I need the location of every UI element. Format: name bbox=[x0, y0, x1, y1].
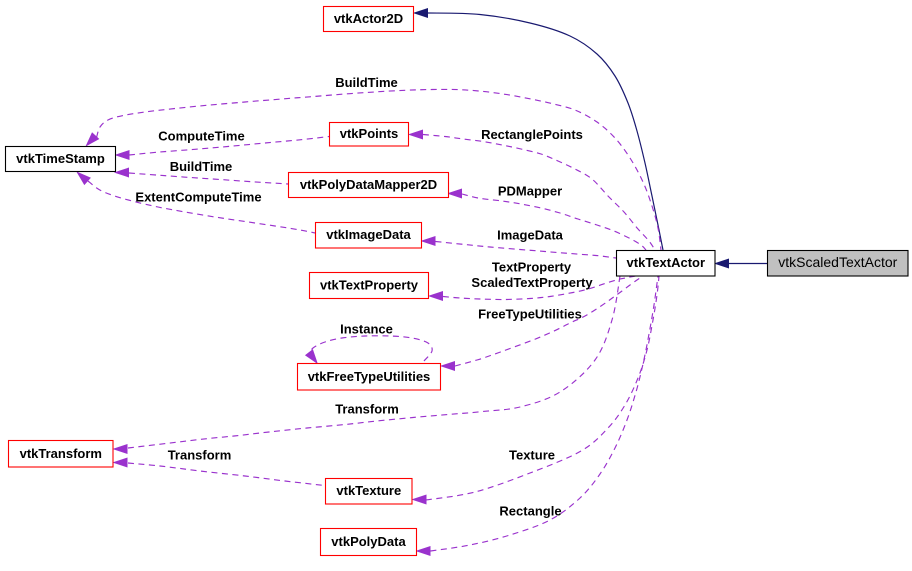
wire Transform from vtkTextActor bbox=[128, 276, 620, 448]
svg-text:Instance: Instance bbox=[340, 322, 393, 337]
svg-text:vtkScaledTextActor: vtkScaledTextActor bbox=[778, 254, 897, 270]
wire inheritance vtkTextActor to vtkActor2D bbox=[428, 13, 663, 250]
svg-text:ImageData: ImageData bbox=[497, 228, 564, 243]
svg-text:BuildTime: BuildTime bbox=[170, 159, 233, 174]
node vtkPolyData bbox=[321, 529, 417, 556]
wire RectanglePoints bbox=[423, 135, 655, 251]
svg-text:vtkTextProperty: vtkTextProperty bbox=[320, 278, 419, 293]
svg-text:vtkFreeTypeUtilities: vtkFreeTypeUtilities bbox=[308, 369, 431, 384]
wire Rectangle bbox=[431, 276, 659, 551]
wire Instance self-loop bbox=[308, 336, 432, 361]
svg-text:vtkActor2D: vtkActor2D bbox=[334, 11, 403, 26]
svg-text:vtkTransform: vtkTransform bbox=[20, 446, 102, 461]
svg-text:FreeTypeUtilities: FreeTypeUtilities bbox=[478, 307, 582, 322]
svg-text:ExtentComputeTime: ExtentComputeTime bbox=[135, 190, 261, 205]
svg-text:RectanglePoints: RectanglePoints bbox=[481, 127, 583, 142]
svg-text:vtkPolyData: vtkPolyData bbox=[331, 534, 406, 549]
svg-text:vtkImageData: vtkImageData bbox=[326, 227, 411, 242]
svg-text:Transform: Transform bbox=[168, 448, 232, 463]
node vtkTimeStamp bbox=[6, 147, 116, 172]
node vtkPolyDataMapper2D bbox=[289, 173, 449, 198]
svg-text:PDMapper: PDMapper bbox=[498, 184, 562, 199]
svg-text:vtkTimeStamp: vtkTimeStamp bbox=[16, 151, 105, 166]
node vtkImageData bbox=[316, 223, 422, 249]
wire ComputeTime bbox=[129, 137, 329, 156]
wire BuildTime left bbox=[129, 173, 288, 184]
node vtkTexture bbox=[326, 479, 413, 505]
svg-text:ScaledTextProperty: ScaledTextProperty bbox=[471, 275, 593, 290]
node vtkFreeTypeUtilities bbox=[298, 364, 441, 391]
wire Transform from vtkTexture bbox=[128, 463, 325, 486]
wire PDMapper bbox=[462, 194, 646, 250]
svg-text:vtkPolyDataMapper2D: vtkPolyDataMapper2D bbox=[300, 177, 437, 192]
svg-text:BuildTime: BuildTime bbox=[335, 75, 398, 90]
node vtkScaledTextActor bbox=[768, 251, 909, 277]
svg-text:ComputeTime: ComputeTime bbox=[158, 129, 244, 144]
wire inheritance vtkScaledTextActor to vtkTextActor bbox=[729, 263, 767, 265]
node vtkActor2D bbox=[324, 7, 414, 32]
wire FreeTypeUtilities bbox=[455, 276, 643, 366]
wire Texture bbox=[426, 276, 659, 500]
svg-text:vtkTextActor: vtkTextActor bbox=[627, 255, 706, 270]
node vtkTextProperty bbox=[310, 273, 429, 299]
node vtkPoints bbox=[330, 123, 409, 147]
wire TextProperty bbox=[443, 276, 636, 300]
svg-text:vtkTexture: vtkTexture bbox=[336, 483, 401, 498]
wire ImageData bbox=[436, 242, 617, 259]
svg-text:Texture: Texture bbox=[509, 448, 555, 463]
svg-text:TextProperty: TextProperty bbox=[492, 260, 572, 275]
node vtkTransform bbox=[9, 441, 114, 468]
wire BuildTime top bbox=[97, 89, 662, 250]
svg-text:vtkPoints: vtkPoints bbox=[340, 126, 399, 141]
node vtkTextActor bbox=[617, 251, 716, 277]
svg-text:Transform: Transform bbox=[335, 402, 399, 417]
wire ExtentComputeTime bbox=[88, 181, 315, 233]
svg-text:Rectangle: Rectangle bbox=[499, 504, 561, 519]
